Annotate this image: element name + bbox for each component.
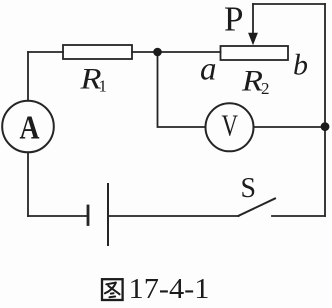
potentiometer R2 body xyxy=(221,46,289,60)
wire top-left horizontal xyxy=(28,51,63,53)
svg-text:V: V xyxy=(222,108,239,143)
wire battery to switch xyxy=(108,215,239,217)
svg-text:P: P xyxy=(224,0,243,39)
battery BT1 short plate xyxy=(87,206,90,225)
wire R1 to node A xyxy=(132,51,221,53)
wire wiper top horizontal xyxy=(253,3,325,5)
node junction right rail / voltmeter xyxy=(321,122,330,131)
svg-text:b: b xyxy=(293,48,308,81)
switch S blade xyxy=(239,199,276,216)
wire right vertical xyxy=(324,4,326,216)
svg-text:R: R xyxy=(241,65,263,98)
voltmeter U2 circle xyxy=(206,103,254,151)
wire left vertical lower xyxy=(27,152,29,216)
wire voltmeter to right rail xyxy=(254,126,326,128)
wiper arrowhead P xyxy=(248,33,258,45)
resistor R1 xyxy=(63,45,132,59)
svg-text:S: S xyxy=(241,172,257,204)
wire wiper vertical xyxy=(252,4,254,33)
wire bottom left to battery xyxy=(28,215,88,217)
svg-text:a: a xyxy=(200,52,217,88)
svg-text:A: A xyxy=(20,110,40,147)
wire node A down to voltmeter branch xyxy=(158,52,206,127)
caption CJK glyph tu (drawn) xyxy=(102,279,123,300)
battery BT1 long plate xyxy=(107,184,109,245)
node junction after R1 xyxy=(153,48,162,57)
svg-text:2: 2 xyxy=(261,79,270,98)
svg-text:1: 1 xyxy=(99,77,108,96)
svg-text:17-4-1: 17-4-1 xyxy=(129,273,210,305)
wire switch to bottom right corner xyxy=(272,215,325,217)
wire left vertical upper xyxy=(27,52,29,101)
ammeter U1 circle xyxy=(2,101,54,153)
